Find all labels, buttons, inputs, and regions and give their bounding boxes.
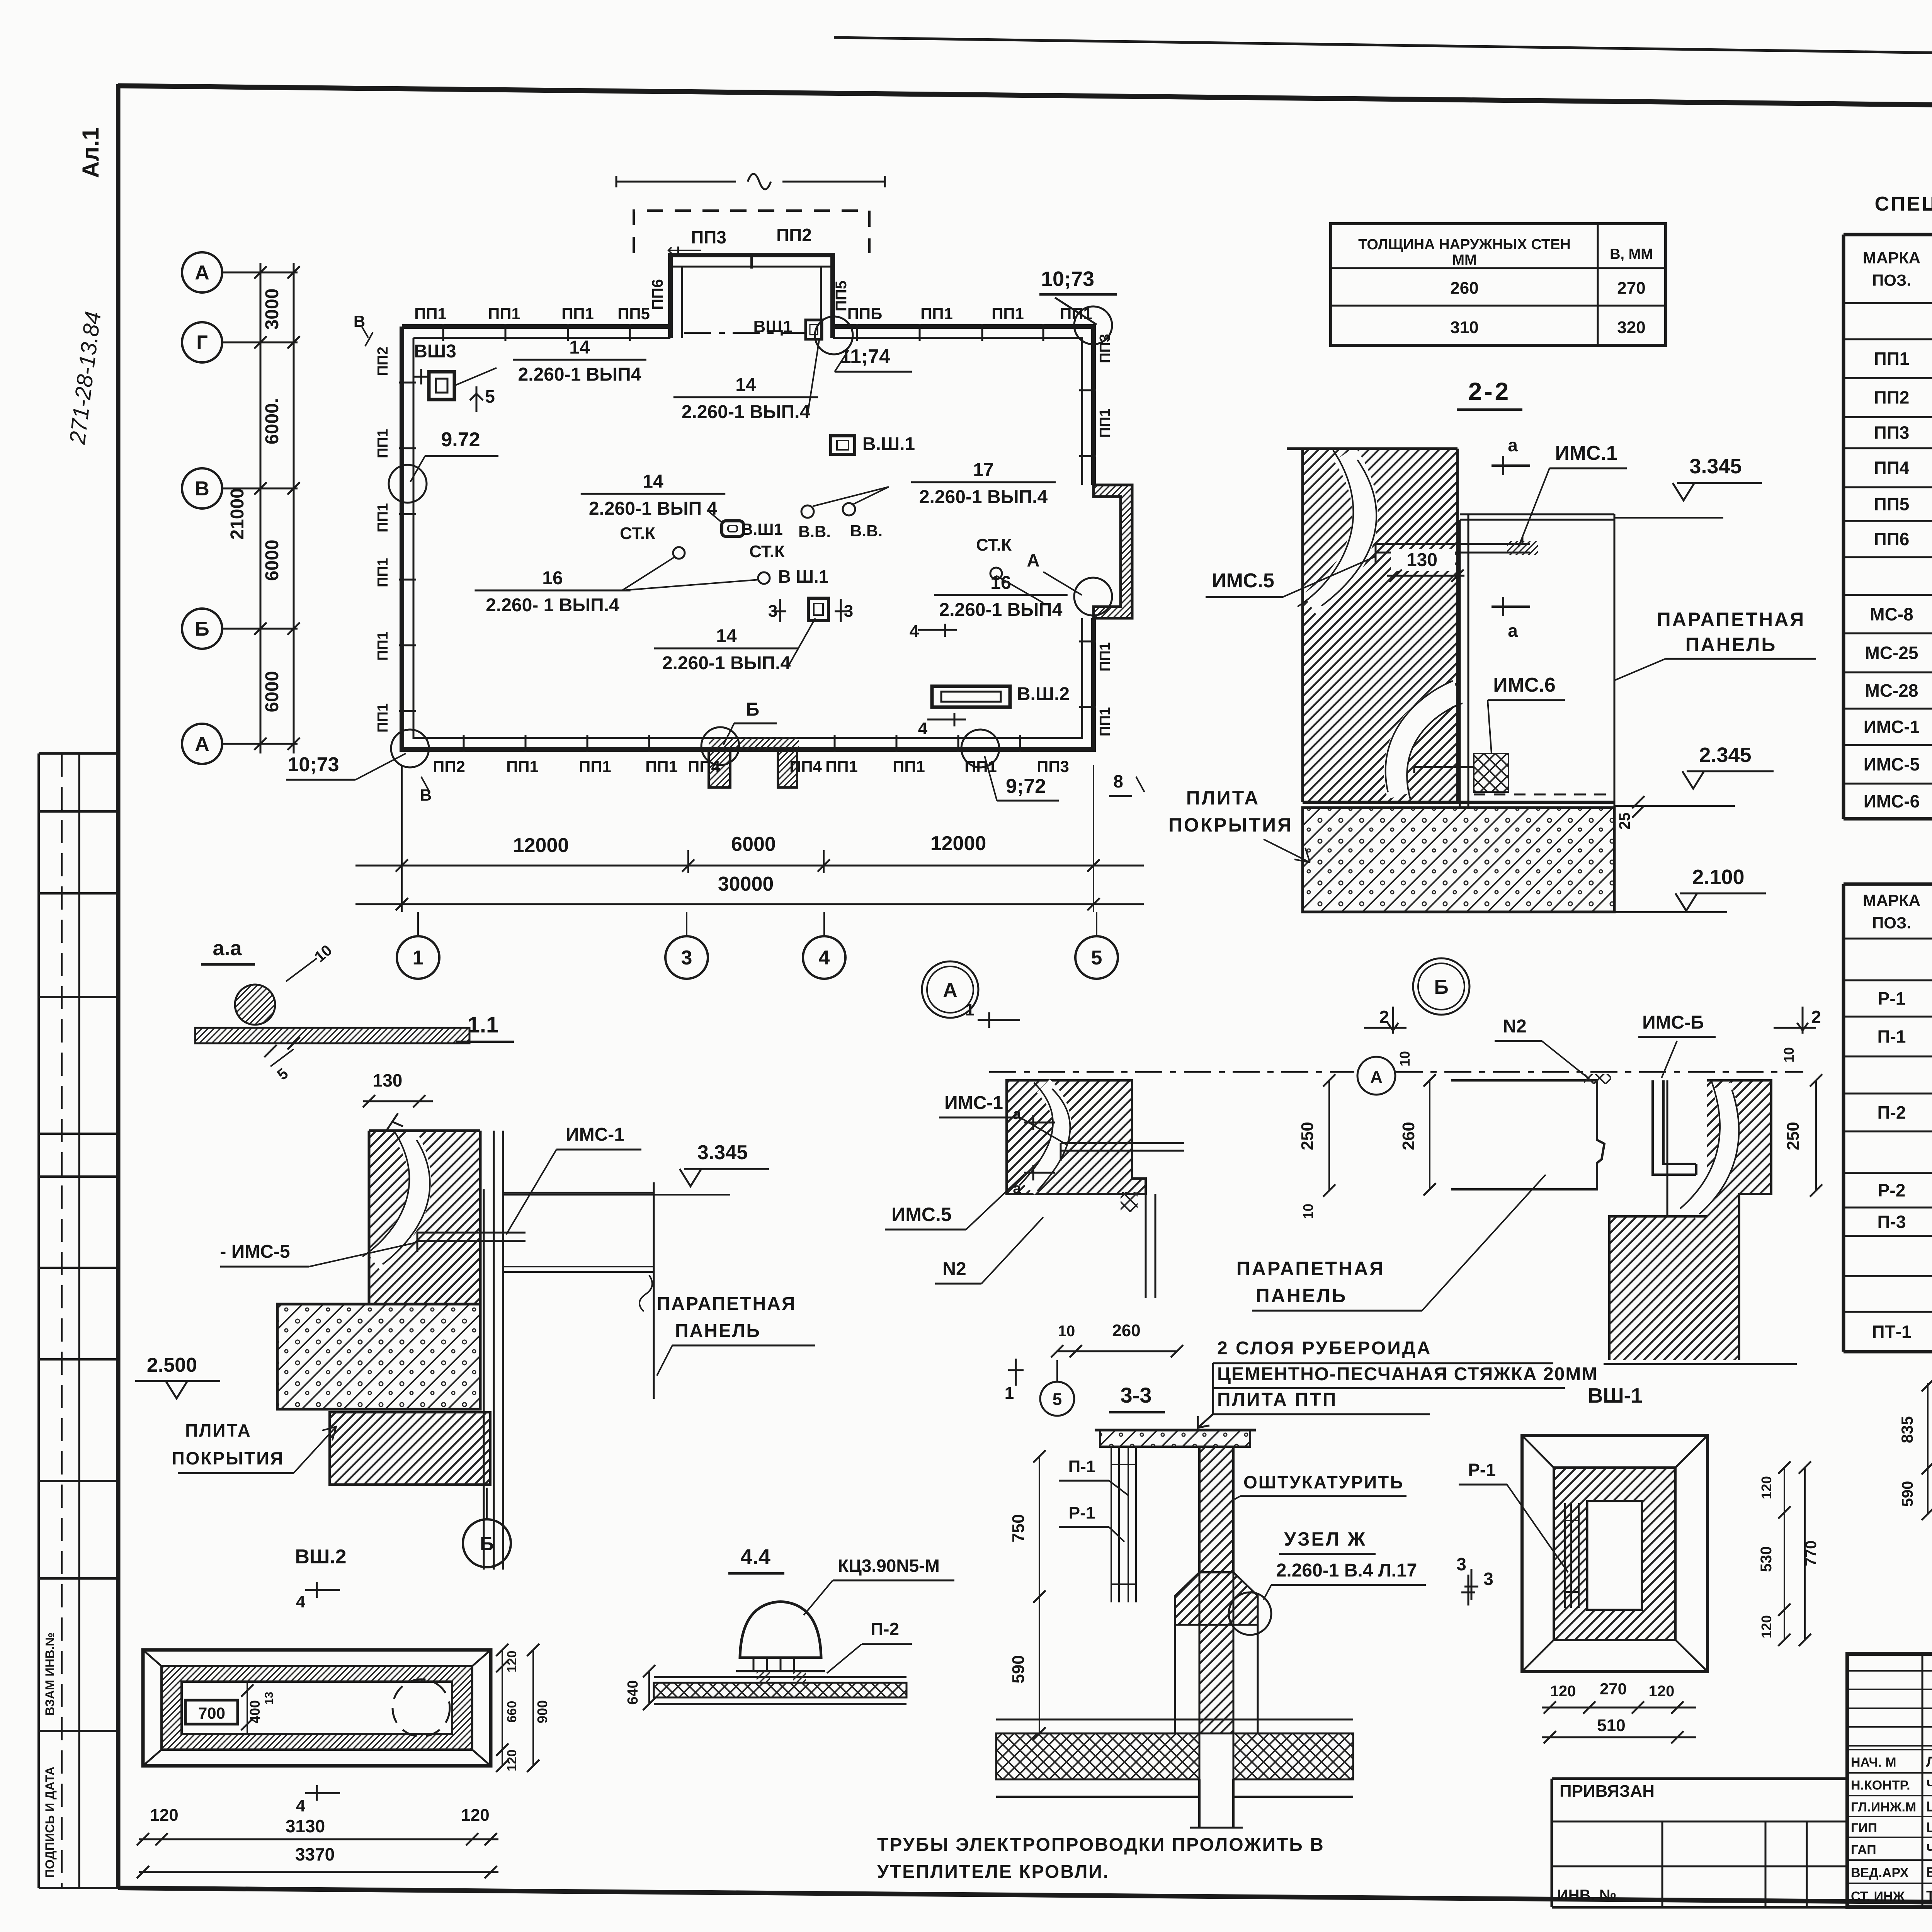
svg-text:6000.: 6000.: [262, 398, 282, 444]
svg-text:ПП1: ПП1: [992, 304, 1024, 323]
svg-text:ММ: ММ: [1452, 252, 1476, 268]
svg-text:120: 120: [1759, 1476, 1774, 1499]
svg-text:Р-2: Р-2: [1878, 1180, 1906, 1201]
svg-text:6000: 6000: [731, 833, 776, 855]
svg-text:ОШТУКАТУРИТЬ: ОШТУКАТУРИТЬ: [1243, 1472, 1404, 1492]
svg-text:ПЛИТА: ПЛИТА: [185, 1420, 252, 1440]
svg-text:25: 25: [1616, 813, 1633, 830]
svg-text:ТОЛЩИНА НАРУЖНЫХ СТЕН: ТОЛЩИНА НАРУЖНЫХ СТЕН: [1358, 236, 1571, 253]
svg-text:ЧВАЛУН: ЧВАЛУН: [1926, 1842, 1932, 1857]
svg-text:10;73: 10;73: [288, 753, 339, 776]
svg-text:П-2: П-2: [871, 1619, 899, 1639]
svg-text:ПП5: ПП5: [617, 304, 650, 323]
svg-text:В.В.: В.В.: [850, 522, 883, 540]
svg-text:ИМС.6: ИМС.6: [1493, 674, 1556, 696]
svg-text:ПАРАПЕТНАЯ: ПАРАПЕТНАЯ: [1236, 1258, 1385, 1279]
svg-text:ПАНЕЛЬ: ПАНЕЛЬ: [1685, 634, 1777, 655]
svg-text:120: 120: [1759, 1615, 1774, 1638]
svg-text:ИМС.5: ИМС.5: [891, 1204, 951, 1225]
svg-text:Б: Б: [480, 1533, 494, 1554]
svg-text:ПП1: ПП1: [645, 757, 678, 776]
svg-text:4: 4: [910, 622, 919, 641]
svg-text:750: 750: [1009, 1514, 1028, 1542]
svg-text:2: 2: [1811, 1007, 1821, 1027]
svg-text:660: 660: [505, 1701, 519, 1723]
svg-text:ПП1: ПП1: [414, 304, 447, 323]
svg-text:ПОКРЫТИЯ: ПОКРЫТИЯ: [172, 1448, 284, 1468]
svg-text:Г: Г: [196, 332, 207, 354]
svg-text:ЦЕМЕНТНО-ПЕСЧАНАЯ СТЯЖКА 20ММ: ЦЕМЕНТНО-ПЕСЧАНАЯ СТЯЖКА 20ММ: [1217, 1364, 1598, 1384]
svg-text:4: 4: [819, 947, 830, 969]
svg-text:Р-1: Р-1: [1468, 1460, 1496, 1480]
svg-text:НАЧ. М: НАЧ. М: [1851, 1755, 1896, 1770]
svg-text:260: 260: [1112, 1321, 1140, 1340]
svg-text:ПАНЕЛЬ: ПАНЕЛЬ: [675, 1321, 761, 1341]
svg-text:В Ш.1: В Ш.1: [778, 566, 829, 587]
svg-text:ПП1: ПП1: [893, 757, 925, 776]
svg-text:270: 270: [1617, 279, 1645, 298]
svg-text:12000: 12000: [930, 832, 986, 855]
svg-text:ПАРАПЕТНАЯ: ПАРАПЕТНАЯ: [657, 1294, 796, 1314]
svg-text:ППБ: ППБ: [847, 304, 883, 323]
svg-text:В, ММ: В, ММ: [1610, 246, 1653, 262]
svg-text:3: 3: [681, 947, 692, 969]
svg-text:3: 3: [1483, 1569, 1493, 1589]
svg-text:30000: 30000: [718, 873, 774, 895]
svg-text:ПП1: ПП1: [920, 304, 953, 323]
svg-text:10: 10: [1781, 1047, 1797, 1063]
svg-text:120: 120: [505, 1750, 519, 1772]
svg-text:П-1: П-1: [1068, 1457, 1096, 1476]
svg-text:ВШ.2: ВШ.2: [295, 1546, 346, 1568]
svg-text:5: 5: [1053, 1390, 1062, 1409]
svg-text:3.345: 3.345: [697, 1141, 748, 1164]
svg-text:ПТ-1: ПТ-1: [1872, 1322, 1911, 1342]
svg-text:900: 900: [534, 1700, 550, 1723]
svg-text:ПП3: ПП3: [1037, 757, 1069, 776]
svg-text:N2: N2: [1503, 1016, 1526, 1037]
svg-text:ВШ-1: ВШ-1: [1588, 1384, 1642, 1407]
svg-text:2: 2: [1379, 1007, 1389, 1027]
svg-text:ПП1: ПП1: [561, 304, 594, 323]
svg-text:а: а: [1013, 1106, 1021, 1122]
svg-text:120: 120: [1550, 1683, 1576, 1700]
svg-text:ГАП: ГАП: [1851, 1843, 1876, 1857]
svg-text:ПП1: ПП1: [1097, 408, 1113, 438]
svg-text:КЦ3.90N5-М: КЦ3.90N5-М: [838, 1556, 940, 1576]
svg-text:ПП6: ПП6: [649, 279, 666, 310]
svg-text:2.260-1 В.4 Л.17: 2.260-1 В.4 Л.17: [1276, 1560, 1417, 1581]
svg-text:12000: 12000: [513, 834, 569, 857]
svg-text:В.Ш1: В.Ш1: [741, 520, 783, 538]
svg-text:2 СЛОЯ РУБЕРОИДА: 2 СЛОЯ РУБЕРОИДА: [1217, 1338, 1432, 1359]
svg-text:10: 10: [1058, 1323, 1075, 1340]
svg-text:260: 260: [1399, 1122, 1418, 1150]
svg-text:ПП1: ПП1: [506, 757, 539, 776]
svg-text:А: А: [943, 979, 957, 1002]
svg-text:4: 4: [918, 719, 928, 738]
svg-text:МС-8: МС-8: [1870, 604, 1913, 624]
svg-text:МАРКА: МАРКА: [1863, 249, 1920, 267]
svg-text:4: 4: [296, 1592, 306, 1611]
svg-text:14: 14: [569, 337, 590, 358]
svg-text:СТ. ИНЖ: СТ. ИНЖ: [1851, 1889, 1905, 1904]
svg-text:ПП1: ПП1: [1097, 707, 1113, 736]
svg-text:ИМС.1: ИМС.1: [1555, 442, 1617, 464]
svg-text:ЛЕОНОВ: ЛЕОНОВ: [1926, 1754, 1932, 1770]
svg-text:510: 510: [1597, 1716, 1625, 1735]
svg-text:ПОЗ.: ПОЗ.: [1872, 271, 1911, 289]
svg-text:ПП4: ПП4: [688, 757, 720, 776]
svg-text:130: 130: [373, 1070, 403, 1090]
svg-text:120: 120: [150, 1806, 178, 1825]
svg-text:Р-1: Р-1: [1069, 1503, 1095, 1522]
svg-text:3000: 3000: [262, 289, 282, 330]
svg-text:10;73: 10;73: [1041, 267, 1094, 291]
svg-text:А: А: [195, 262, 209, 284]
svg-text:590: 590: [1899, 1481, 1916, 1507]
svg-text:ГИП: ГИП: [1851, 1821, 1877, 1835]
svg-text:3130: 3130: [286, 1816, 325, 1836]
svg-text:В: В: [195, 478, 209, 500]
svg-text:СТ.К: СТ.К: [620, 524, 655, 543]
svg-text:Б: Б: [1434, 976, 1448, 998]
svg-text:2.260-1 ВЫП.4: 2.260-1 ВЫП.4: [919, 487, 1048, 507]
svg-text:14: 14: [735, 375, 756, 395]
svg-text:ВЗАМ ИНВ.№: ВЗАМ ИНВ.№: [43, 1633, 57, 1716]
svg-text:МС-25: МС-25: [1865, 643, 1918, 663]
svg-text:ПП3: ПП3: [1874, 423, 1910, 443]
svg-text:130: 130: [1406, 550, 1437, 570]
svg-text:Б: Б: [195, 618, 209, 640]
svg-text:770: 770: [1803, 1541, 1820, 1566]
svg-text:3370: 3370: [295, 1844, 335, 1864]
svg-text:ПАРАПЕТНАЯ: ПАРАПЕТНАЯ: [1657, 609, 1805, 630]
svg-text:В: В: [354, 312, 365, 330]
svg-text:1: 1: [965, 1000, 975, 1019]
svg-text:ПП4: ПП4: [789, 757, 822, 776]
svg-text:ТЕПЛОВА: ТЕПЛОВА: [1926, 1888, 1932, 1904]
svg-text:ПП2: ПП2: [1874, 388, 1910, 408]
svg-text:ПП3: ПП3: [691, 227, 726, 247]
svg-text:120: 120: [461, 1806, 489, 1825]
svg-text:700: 700: [198, 1704, 225, 1722]
svg-text:4.4: 4.4: [740, 1544, 770, 1569]
svg-text:13: 13: [263, 1692, 276, 1704]
svg-text:2.100: 2.100: [1692, 866, 1744, 889]
svg-text:10: 10: [1300, 1204, 1316, 1219]
svg-text:ПП1: ПП1: [579, 757, 611, 776]
svg-text:ПП1: ПП1: [375, 703, 391, 733]
svg-text:Р-1: Р-1: [1878, 988, 1906, 1009]
svg-text:В.Ш.1: В.Ш.1: [862, 434, 915, 454]
svg-text:ПП1: ПП1: [375, 631, 391, 661]
svg-text:120: 120: [505, 1651, 519, 1673]
svg-text:А: А: [195, 733, 209, 755]
svg-text:320: 320: [1617, 318, 1645, 337]
svg-text:270: 270: [1600, 1680, 1627, 1698]
svg-text:9;72: 9;72: [1006, 775, 1046, 798]
svg-text:ВЩ1: ВЩ1: [753, 317, 792, 336]
svg-text:ПП1: ПП1: [375, 558, 391, 587]
svg-text:ПП1: ПП1: [1060, 304, 1092, 323]
svg-text:УТЕПЛИТЕЛЕ КРОВЛИ.: УТЕПЛИТЕЛЕ КРОВЛИ.: [877, 1862, 1109, 1882]
svg-text:П-2: П-2: [1878, 1102, 1906, 1122]
svg-text:ПЛИТА ПТП: ПЛИТА ПТП: [1217, 1389, 1337, 1410]
svg-text:11;74: 11;74: [840, 345, 890, 368]
svg-text:П-1: П-1: [1878, 1027, 1906, 1047]
svg-text:Ал.1: Ал.1: [78, 127, 104, 178]
svg-text:В.В.: В.В.: [798, 522, 831, 541]
svg-text:2.260-1 ВЫП4: 2.260-1 ВЫП4: [518, 364, 641, 385]
svg-text:8: 8: [1113, 771, 1123, 791]
svg-text:В.Ш.2: В.Ш.2: [1017, 684, 1070, 704]
svg-text:2-2: 2-2: [1468, 378, 1511, 405]
svg-text:ИМС-5: ИМС-5: [1864, 754, 1920, 774]
svg-text:3: 3: [844, 602, 853, 621]
svg-text:Б: Б: [746, 699, 760, 720]
svg-text:ИМС-Б: ИМС-Б: [1642, 1012, 1704, 1033]
svg-text:ПП2: ПП2: [776, 225, 812, 245]
svg-text:21000: 21000: [227, 488, 248, 539]
svg-text:ИМС-6: ИМС-6: [1864, 791, 1920, 811]
svg-text:2.260-1 ВЫП.4: 2.260-1 ВЫП.4: [662, 653, 791, 673]
svg-text:14: 14: [716, 626, 737, 646]
svg-text:310: 310: [1450, 318, 1478, 337]
svg-text:2.260-1 ВЫП4: 2.260-1 ВЫП4: [939, 600, 1063, 620]
svg-text:ЧВАЛУН: ЧВАЛУН: [1926, 1777, 1932, 1793]
svg-text:2.260- 1 ВЫП.4: 2.260- 1 ВЫП.4: [486, 595, 619, 616]
svg-text:УЗЕЛ Ж: УЗЕЛ Ж: [1284, 1528, 1367, 1550]
svg-text:14: 14: [643, 471, 663, 492]
svg-text:10: 10: [1397, 1051, 1413, 1066]
svg-text:ПАНЕЛЬ: ПАНЕЛЬ: [1256, 1285, 1347, 1306]
svg-text:3.345: 3.345: [1689, 455, 1742, 478]
svg-text:530: 530: [1758, 1546, 1775, 1572]
svg-text:6000: 6000: [262, 671, 282, 713]
svg-text:ПП1: ПП1: [375, 503, 391, 532]
svg-text:ПП5: ПП5: [1874, 494, 1910, 514]
svg-text:ИМС.5: ИМС.5: [1212, 570, 1274, 592]
svg-text:МАРКА: МАРКА: [1863, 891, 1920, 910]
svg-text:260: 260: [1450, 279, 1478, 298]
svg-text:5: 5: [1091, 947, 1102, 969]
svg-text:2.500: 2.500: [147, 1354, 197, 1376]
svg-text:400: 400: [247, 1700, 263, 1723]
svg-text:а: а: [1508, 621, 1518, 641]
svg-text:ПЛИТА: ПЛИТА: [1186, 787, 1260, 809]
svg-text:а: а: [1508, 435, 1518, 455]
svg-text:МС-28: МС-28: [1865, 680, 1918, 701]
svg-text:ГЛ.ИНЖ.М: ГЛ.ИНЖ.М: [1851, 1800, 1916, 1815]
svg-text:ПП1: ПП1: [1097, 642, 1113, 672]
svg-text:4: 4: [296, 1796, 306, 1815]
svg-text:9.72: 9.72: [441, 429, 480, 451]
svg-text:СТ.К: СТ.К: [749, 542, 785, 561]
svg-text:5: 5: [485, 386, 495, 406]
svg-text:ИМС-1: ИМС-1: [566, 1124, 624, 1145]
svg-text:16: 16: [542, 568, 563, 588]
svg-text:ПП3: ПП3: [1097, 334, 1113, 363]
svg-text:П-3: П-3: [1878, 1212, 1906, 1232]
svg-text:3: 3: [768, 602, 777, 621]
svg-text:3: 3: [1456, 1554, 1466, 1574]
svg-text:БОГДАНОВА: БОГДАНОВА: [1926, 1864, 1932, 1880]
svg-text:а.а: а.а: [213, 937, 242, 960]
svg-text:17: 17: [973, 460, 993, 480]
svg-text:СТ.К: СТ.К: [976, 536, 1012, 554]
svg-text:В: В: [420, 786, 432, 804]
svg-text:120: 120: [1649, 1683, 1675, 1700]
svg-text:ТРУБЫ ЭЛЕКТРОПРОВОДКИ ПРОЛОЖ: ТРУБЫ ЭЛЕКТРОПРОВОДКИ ПРОЛОЖИТЬ В: [877, 1835, 1325, 1855]
svg-text:ПП1: ПП1: [488, 304, 520, 323]
svg-text:ПОКРЫТИЯ: ПОКРЫТИЯ: [1168, 814, 1293, 836]
svg-text:ПП1: ПП1: [964, 757, 997, 776]
svg-text:А: А: [1370, 1068, 1383, 1087]
svg-text:- ИМС-5: - ИМС-5: [220, 1242, 290, 1262]
svg-text:835: 835: [1898, 1416, 1916, 1443]
svg-text:СПЕЦИФИКАЦИЯ К СХЕМАМ РАСПОЛОЖ: СПЕЦИФИКАЦИЯ К СХЕМАМ РАСПОЛОЖЕНИЯ ЭЛЕМЕ…: [1875, 193, 1932, 215]
svg-text:ПОДПИСЬ И ДАТА: ПОДПИСЬ И ДАТА: [43, 1767, 57, 1878]
svg-text:ШУРМУХИНА: ШУРМУХИНА: [1926, 1799, 1932, 1815]
svg-text:ИНВ. №: ИНВ. №: [1557, 1887, 1616, 1904]
svg-text:ПП4: ПП4: [1874, 458, 1910, 478]
svg-text:590: 590: [1009, 1655, 1028, 1683]
svg-text:ПП1: ПП1: [375, 429, 391, 458]
svg-text:ПОЗ.: ПОЗ.: [1872, 914, 1911, 932]
svg-text:ПП6: ПП6: [1874, 529, 1910, 549]
svg-text:ПП1: ПП1: [1874, 349, 1910, 369]
svg-text:6000: 6000: [262, 540, 282, 581]
svg-text:ИМС-1: ИМС-1: [944, 1093, 1003, 1113]
svg-text:2.260-1 ВЫП.4: 2.260-1 ВЫП.4: [682, 402, 810, 422]
svg-text:640: 640: [625, 1680, 641, 1704]
svg-text:1: 1: [413, 947, 424, 969]
svg-text:2.345: 2.345: [1699, 743, 1751, 767]
svg-text:ВШ3: ВШ3: [414, 341, 456, 362]
svg-text:Н.КОНТР.: Н.КОНТР.: [1851, 1778, 1910, 1793]
svg-text:ШУРМУХИНА: ШУРМУХИНА: [1926, 1820, 1932, 1835]
svg-text:ПП2: ПП2: [433, 757, 465, 776]
svg-text:2.260-1 ВЫП 4: 2.260-1 ВЫП 4: [589, 498, 718, 519]
svg-text:N2: N2: [942, 1259, 966, 1279]
svg-text:а: а: [1013, 1180, 1021, 1197]
svg-text:1: 1: [1005, 1384, 1014, 1403]
svg-text:ПП5: ПП5: [833, 281, 850, 311]
svg-text:ВЕД.АРХ: ВЕД.АРХ: [1851, 1866, 1909, 1880]
svg-text:ИМС-1: ИМС-1: [1864, 717, 1920, 737]
svg-text:А: А: [1027, 550, 1039, 570]
svg-text:ПРИВЯЗАН: ПРИВЯЗАН: [1560, 1782, 1655, 1801]
svg-text:ПП1: ПП1: [825, 757, 858, 776]
svg-text:1.1: 1.1: [468, 1012, 499, 1037]
svg-text:ПП2: ПП2: [375, 347, 391, 376]
svg-text:3-3: 3-3: [1121, 1383, 1152, 1407]
svg-text:250: 250: [1784, 1122, 1803, 1150]
svg-text:250: 250: [1298, 1122, 1317, 1150]
